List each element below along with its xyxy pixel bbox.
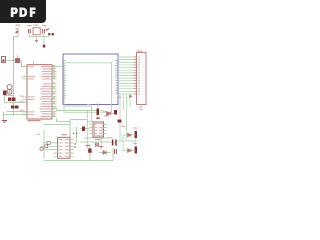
LED LED1 (7, 85, 12, 90)
label C6 value (37, 134, 38, 135)
wire U1 AVCC up (33, 61, 35, 65)
resistor R9 below top group (43, 45, 46, 48)
LED LED2 (7, 89, 12, 94)
capacitor C3 (dark) (3, 91, 7, 96)
diode D4 right (128, 149, 132, 153)
wires module to connector (right harness) (118, 57, 137, 94)
U1 right pin stubs (52, 66, 57, 116)
capacitor C5 bottom (88, 149, 91, 153)
label right parts (121, 125, 125, 128)
capacitor C6 right (dark bar) (135, 131, 138, 138)
resistor R8 right (118, 120, 122, 123)
wire bus U1 bottom to lower circuit (44, 108, 104, 142)
wire top group rail (14, 33, 50, 44)
label crystal (87, 104, 91, 105)
wire bottom rail (44, 144, 113, 161)
resistor R2 (12, 98, 16, 102)
wire C4 (80, 110, 116, 146)
label K1 (34, 25, 39, 26)
capacitor C8 bottom right (115, 149, 117, 154)
wire U1 to module (53, 65, 64, 67)
label U1 value ATMEGA (28, 120, 41, 121)
resistor R4 (15, 106, 19, 109)
transistor U2 driver IC (58, 137, 70, 158)
wire mid left (42, 130, 54, 159)
U2 top pin numbers (73, 133, 74, 134)
wire regulator to U1 (6, 59, 28, 67)
resistor R5 mid (47, 142, 50, 145)
U1 left pin stubs (23, 66, 28, 114)
display frame (pale green box) (64, 63, 112, 113)
label D5 (48, 28, 49, 30)
LCD module M1 (navy box) (63, 54, 118, 105)
capacitor C10 pair on wire (113, 140, 116, 146)
connector J1 (137, 53, 147, 105)
diode D5 top (48, 33, 50, 35)
diode D3 right (128, 133, 132, 137)
resistor R3 (11, 106, 15, 109)
ground left (2, 121, 7, 123)
connector X1 (far left) (2, 57, 6, 63)
diode D6 top (52, 33, 54, 35)
resistor R6 mid (45, 145, 48, 148)
label U2 (62, 134, 68, 135)
capacitor C7 right (dark bar) (135, 147, 138, 154)
U2 pin numbers right (74, 143, 75, 148)
crystal Q2 drive cap (dark bar) (97, 109, 100, 116)
U1 pin numbers (53, 65, 55, 116)
U2 internal pin text (59, 139, 70, 157)
regulator IC2 (16, 59, 20, 63)
wire left leds (4, 90, 27, 121)
diode D1 (107, 112, 111, 116)
op-amp U1 main MCU box (27, 65, 52, 119)
label C2 (42, 25, 47, 26)
resistor R7 right top (114, 110, 117, 115)
U3 internal pin text (94, 124, 102, 134)
op-amp U3 small IC (8 pin) (93, 122, 104, 137)
capacitor C2 polarized (43, 29, 48, 34)
U1 pin names left column (28, 66, 35, 115)
ground right harness (129, 95, 133, 99)
label net PB0 (20, 95, 24, 98)
U3 pin stubs (90, 125, 108, 134)
diode D2 (103, 151, 107, 155)
capacitor C9 vertical pair (96, 143, 98, 147)
wire crystal (64, 103, 115, 122)
label net PB1 (20, 100, 24, 103)
capacitor C1 (28, 29, 30, 33)
wire left VCC rail (13, 37, 15, 116)
label C11 value (96, 118, 99, 119)
label C1 (27, 25, 32, 26)
resistor R1 (8, 98, 12, 102)
label net name right (117, 97, 122, 98)
PDF badge (0, 0, 46, 23)
wire drops from harness (120, 94, 130, 140)
label Q1 (16, 25, 21, 26)
J1 pin numbers (138, 57, 140, 95)
connector J1 pin stubs (134, 57, 137, 94)
U1 pin names right column (40, 66, 52, 117)
capacitor C4 polarized left of U3 (82, 127, 85, 132)
varistor RV1 (40, 147, 43, 150)
wire right bottom (116, 135, 136, 151)
ground bottom mid (86, 146, 90, 148)
transistor Q1 (top-left small part) (16, 28, 19, 34)
label J1 (137, 51, 143, 52)
relay K1 box (33, 28, 40, 35)
ground bottom u3 (99, 147, 103, 149)
M1 left edge pin ticks (63, 61, 66, 99)
U2 pin stubs (54, 140, 74, 157)
M1 right edge pin ticks (116, 61, 119, 94)
label net PB2 (20, 109, 24, 112)
label below J1 (139, 107, 143, 108)
label U3 value (95, 139, 101, 140)
ground top (35, 41, 38, 42)
label C10 (109, 137, 113, 138)
